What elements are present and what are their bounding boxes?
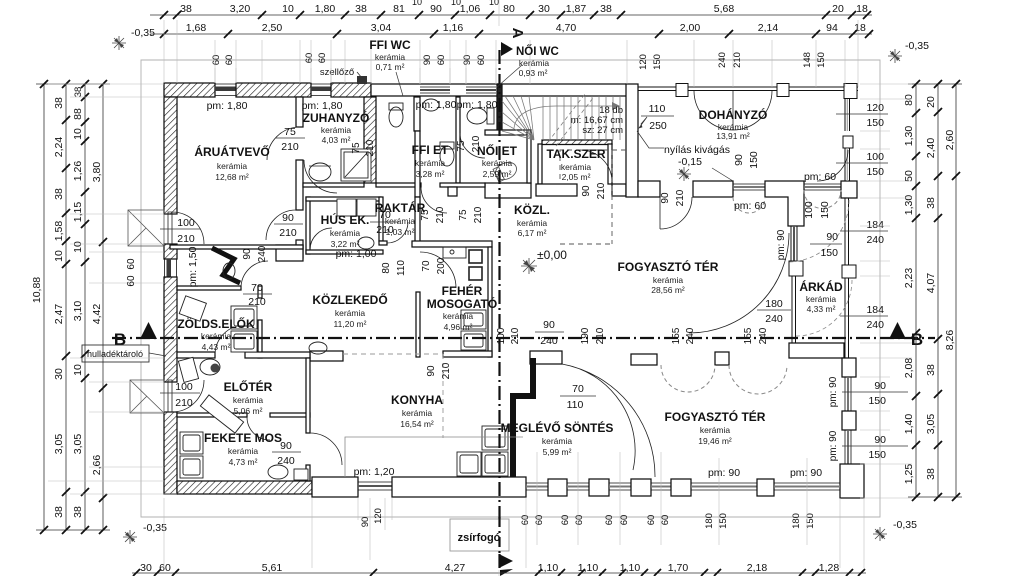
svg-text:180: 180 [765,298,783,310]
bottom window post 5 [757,479,774,496]
right wall corner block SE [840,464,864,498]
bottom window post 2 [589,479,609,496]
bottom window post 4 [671,479,691,496]
svg-text:10: 10 [489,0,499,7]
survey star DOHANYZO [677,167,691,181]
room label RAKTAR [375,200,426,237]
svg-text:pm: 90: pm: 90 [708,467,740,479]
svg-text:1,26: 1,26 [72,161,84,182]
svg-text:60: 60 [534,515,545,526]
survey star top left [112,36,126,50]
svg-text:KÖZLEKEDŐ: KÖZLEKEDŐ [312,292,387,307]
svg-text:-0,15: -0,15 [678,156,702,168]
svg-text:kerámia: kerámia [402,408,433,418]
svg-text:1,68: 1,68 [186,22,207,34]
stair break dashed lines [548,94,593,146]
svg-text:FOGYASZTÓ TÉR: FOGYASZTÓ TÉR [665,409,766,424]
rot dims 90-240 ARU door low [242,245,268,262]
FFI WC right wall [414,97,420,131]
right inner paired dims 90-150 mid [810,231,842,259]
HUS EK fridge 2 [357,199,376,216]
svg-text:kerámia: kerámia [415,158,446,168]
dashed boundary KONYHA-KOZLEKEDO [343,354,443,438]
svg-text:pm: 1,20: pm: 1,20 [354,466,395,478]
left dimension chain vertical lines [36,84,110,530]
ZOLDS.ELOK right wall [258,286,262,298]
ZOLDS table rotated [179,296,206,321]
door arc KOZL [660,197,692,229]
stair treads upper flight [543,96,620,140]
svg-text:nyílás kivágás: nyílás kivágás [664,144,730,156]
svg-text:38: 38 [600,3,612,15]
exterior top wall hatched segment 2 [236,83,311,97]
RAKTAR divider wall [379,197,383,241]
room label KONYHA [391,393,443,429]
svg-text:90: 90 [543,319,555,331]
ZOLDS.ELOK right wall lower [258,320,262,358]
survey star bottom right [873,527,887,541]
svg-text:TAK.SZER: TAK.SZER [546,147,605,161]
dashed door swing ARKAD east [789,200,849,262]
bottom window row glyph 5 [691,483,757,490]
right inner paired dims 100-150 [836,151,888,178]
room label TAK.SZER [546,147,605,182]
bottom wall window pm 1,20 [358,482,392,490]
axis opening dims rot on B line [496,327,769,344]
svg-text:60: 60 [126,258,137,270]
FEHER MOSOGATO hand sink 2 [469,267,482,280]
wall between FFI ET and NOI WC [456,97,460,183]
ZOLDS washer 2 [231,331,257,352]
stair walk line with arrow [514,106,612,128]
svg-text:3,05: 3,05 [925,414,937,435]
section marker A top [501,28,526,56]
top row1 numbers [180,0,868,15]
svg-text:pm: 90: pm: 90 [828,376,839,407]
FFI block south thin wall [376,183,421,187]
svg-text:250: 250 [649,120,667,132]
svg-text:±0,00: ±0,00 [537,248,567,262]
svg-text:81: 81 [393,3,405,15]
FEKETE MOS sink 2 [180,456,203,478]
svg-text:ZUHANYZÓ: ZUHANYZÓ [303,110,370,125]
NOI ET thin south wall west part [440,183,485,187]
svg-text:10,88: 10,88 [31,277,43,303]
bottom wall white segment west [312,477,358,497]
SONTES top wall block [530,351,562,364]
svg-text:FEKETE MOS: FEKETE MOS [204,431,282,445]
bottom window row glyph 4 [651,483,671,490]
section marker A bottom [499,554,513,576]
section marker B right [889,322,923,349]
svg-text:10: 10 [72,128,84,140]
svg-text:240: 240 [685,327,696,344]
svg-text:110: 110 [649,103,666,115]
FEHER MOSOGATO left wall [416,292,420,357]
door size 70-200 rot FEHER [421,257,447,274]
room label FOGYASZTO TER lower [665,409,766,446]
svg-text:0,71 m²: 0,71 m² [376,62,405,72]
double door arcs DOHANYZO north [694,91,772,130]
svg-text:-0,35: -0,35 [143,522,167,534]
door arc entry left wall lower [168,380,204,412]
corridor wall block west [276,245,303,261]
svg-text:3,20: 3,20 [230,3,251,15]
svg-text:1,06: 1,06 [460,3,481,15]
DOHANYZO right glazing window 100-150 [845,148,850,181]
section marker B left [114,322,157,349]
svg-text:kerámia: kerámia [700,425,731,435]
bottom window post 1 [548,479,567,496]
pier on B axis 1 [631,354,657,365]
svg-text:pm: 90: pm: 90 [790,467,822,479]
svg-text:60: 60 [317,53,328,64]
svg-text:8,26: 8,26 [944,330,956,351]
svg-text:80: 80 [903,94,915,106]
svg-text:1,25: 1,25 [903,464,915,485]
svg-text:28,56 m²: 28,56 m² [651,285,685,295]
stair winder treads [502,96,534,140]
svg-text:1,40: 1,40 [903,414,915,435]
room label ARKAD [799,279,843,314]
svg-text:2,59 m²: 2,59 m² [483,169,512,179]
right wall post upper [842,358,856,377]
left chain numbers rotated [31,87,103,518]
svg-text:150: 150 [805,513,816,529]
ELOTER bench rotated [200,395,243,433]
ARKAD east glazing lower [844,278,846,358]
room label ELOTER [224,379,273,416]
svg-text:150: 150 [866,166,884,178]
svg-text:100: 100 [496,327,507,344]
svg-text:240: 240 [717,52,728,68]
top dimension chain row1 line [150,14,872,16]
svg-text:90: 90 [360,517,371,528]
dashed opening arc lower band 1 [661,365,715,392]
window top wall 1 [215,84,236,96]
svg-text:240: 240 [758,327,769,344]
RAKTAR right wall [415,197,420,244]
FFI ET toilet [440,146,454,166]
door size 100-210 box upper [160,217,200,245]
svg-text:10: 10 [451,0,461,7]
svg-text:1,10: 1,10 [578,562,599,574]
pm labels top row [207,99,498,112]
room label FEKETE MOS [204,431,282,467]
svg-text:4,42: 4,42 [91,304,103,325]
door arc HUS EK [310,228,332,250]
svg-text:1,30: 1,30 [903,195,915,216]
svg-text:75: 75 [351,142,362,154]
bottom dimension chain line [132,572,866,574]
right wall post middle [842,411,856,430]
KONYHA west wall upper [306,358,310,433]
door arc ARKAD glass [689,233,789,333]
svg-text:0,93 m²: 0,93 m² [519,68,548,78]
svg-text:120: 120 [373,508,384,524]
top dimension chain row2 line [150,33,872,35]
svg-text:2,47: 2,47 [53,304,65,325]
door size 75-210 ARU [276,126,305,153]
above-plan rotated small dims [211,52,827,70]
centerline wall stub at A [497,84,502,131]
nyilas kivagas note [664,144,733,181]
vestibule sink [223,263,235,279]
right inner paired dims 184-240 lower [840,304,888,331]
ZOLDS.ELOK top wall [177,286,241,290]
svg-text:ZÖLDS.ELŐK: ZÖLDS.ELŐK [177,316,255,331]
exterior left wall upper hatched [164,97,177,214]
pier on B axis 2 [715,352,729,365]
svg-text:2,66: 2,66 [91,455,103,476]
svg-text:240: 240 [765,313,783,325]
waste bin glyph [178,357,198,382]
pm 90 labels bottom [708,467,822,479]
svg-text:4,96 m²: 4,96 m² [444,322,473,332]
svg-text:155: 155 [743,327,754,344]
svg-text:210: 210 [675,189,686,206]
svg-text:210: 210 [365,139,376,156]
svg-text:210: 210 [732,52,743,68]
door size 70-210 vestibule [243,282,272,308]
svg-text:FFI WC: FFI WC [369,38,411,52]
ZUHANYZO shower tray [341,149,371,181]
svg-text:90: 90 [874,380,886,392]
ELOTER - FEKETE MOS divider wall [177,413,247,417]
ZUHANYZO bottom thin wall [303,183,364,187]
door arc FEKETE MOS [247,417,270,440]
svg-text:2,05 m²: 2,05 m² [562,172,591,182]
corridor south wall block east [612,184,626,196]
svg-text:2,60: 2,60 [944,130,956,151]
partition ARUATVEVO right wall middle [296,160,303,210]
svg-text:20: 20 [832,3,844,15]
svg-text:kerámia: kerámia [330,228,361,238]
left wall piece between door1 and window [164,244,177,259]
door size 90-240 KONYHA [535,319,564,347]
site boundary light outline [141,60,880,517]
svg-text:120: 120 [638,54,649,70]
ARKAD east glazing upper [844,198,846,265]
svg-text:70: 70 [572,383,584,395]
svg-text:155: 155 [671,327,682,344]
svg-text:5,99 m²: 5,99 m² [543,447,572,457]
left wall lower hatched [164,412,177,494]
svg-text:210: 210 [596,182,607,199]
right inner paired dims 90-150 window1 [842,380,908,407]
svg-text:150: 150 [866,117,884,129]
right inner paired dims 90-150 window2 [842,434,908,461]
svg-text:13,91 m²: 13,91 m² [716,131,750,141]
svg-text:1,15: 1,15 [72,202,84,223]
door size 90-210 rot KONYHA NW [426,362,452,379]
svg-text:3,05: 3,05 [53,434,65,455]
svg-text:4,03 m²: 4,03 m² [322,135,351,145]
svg-text:240: 240 [257,245,268,262]
under-plan rotated small dims [360,508,816,529]
ZUHANYZO sink [309,163,331,181]
rot dims 90-150 at DOHANYZO center [733,151,760,169]
dashed corridor boundary KOZL [560,150,612,244]
HUS EK bottom wall [306,250,383,254]
svg-text:60: 60 [520,515,531,526]
svg-text:150: 150 [820,247,838,259]
svg-text:4,70: 4,70 [556,22,577,34]
svg-text:30: 30 [53,368,65,380]
DOHANYZO right glazing with window 120-150 [845,99,850,131]
svg-text:pm: 60: pm: 60 [734,200,766,212]
svg-text:50: 50 [903,170,915,182]
bottom window row glyph 2 [567,483,589,490]
svg-text:110: 110 [567,399,584,411]
TAK.SZER right wall [608,144,612,184]
svg-text:-0,35: -0,35 [131,27,155,39]
svg-text:210: 210 [279,227,297,239]
TAK.SZER left wall [538,144,542,184]
svg-text:80: 80 [381,262,392,274]
top row2 ticks [160,30,873,38]
room label ZUHANYZO [303,110,370,145]
hulladektarolo label box [82,345,166,362]
survey star top right [888,49,902,63]
svg-text:ÁRKÁD: ÁRKÁD [799,279,843,294]
ARKAD west post [789,261,803,276]
right chain numbers rotated [903,94,956,484]
svg-text:1,10: 1,10 [538,562,559,574]
svg-text:6,17 m²: 6,17 m² [518,228,547,238]
bottom chain ticks [133,569,865,576]
right inner paired dims 120-150 [836,102,888,129]
glazing post right wall [843,136,853,148]
svg-text:90: 90 [422,55,433,66]
stair - DOHANYZO divider wall [626,84,638,197]
svg-text:FFI ET: FFI ET [412,143,449,157]
DOHANYZO top glazing west run [638,86,858,88]
svg-text:-0,35: -0,35 [905,40,929,52]
room label ZOLDS.ELOK [177,316,255,352]
corridor wall L piece [638,181,660,197]
svg-text:100: 100 [175,381,193,393]
stair data block [571,105,623,136]
svg-text:DOHÁNYZÓ: DOHÁNYZÓ [699,107,768,122]
svg-text:kerámia: kerámia [321,125,352,135]
svg-text:1,80: 1,80 [315,3,336,15]
door arc TAK.SZER [580,150,612,182]
lobby sink FFI [423,99,439,111]
svg-text:180: 180 [791,513,802,529]
svg-text:kerámia: kerámia [201,331,232,341]
dashed opening arc upper band window [733,197,765,213]
door arc left wall upper (100-210) [168,212,204,244]
ARKAD west glazing lower [791,276,793,343]
svg-text:kerámia: kerámia [519,58,550,68]
svg-text:240: 240 [277,455,295,467]
KOZLEKEDO-KONYHA wall solid piece [310,351,343,361]
top row1 ticks [160,11,871,19]
right dimension chain vertical lines [908,84,962,497]
svg-text:2,23: 2,23 [903,268,915,289]
FEHER counter with drain [443,247,466,258]
svg-text:60: 60 [159,562,171,574]
room label KOZL [514,202,550,238]
door arc ARUATVEVO-ZUHANYZO [267,127,300,160]
svg-text:70: 70 [421,260,432,272]
svg-text:210: 210 [376,224,394,236]
svg-text:38: 38 [53,188,65,200]
door size 75-210 rot FFI [420,206,446,223]
KONYHA sink 3 [457,452,481,476]
svg-text:kerámia: kerámia [653,275,684,285]
rot dims 90-210 KOZL door [660,189,686,206]
FEHER MOSOGATO bottom wall [443,351,492,357]
svg-text:210: 210 [435,206,446,223]
bottom window row glyph 1 [526,483,548,490]
svg-text:75: 75 [420,209,431,221]
KONYHA sink 2 [482,452,508,476]
svg-text:kerámia: kerámia [806,294,837,304]
dashed opening arc lower band 2 [729,365,787,394]
FEHER sink 2 [461,331,486,350]
svg-text:210: 210 [281,141,299,153]
svg-text:90: 90 [282,212,294,224]
svg-text:10: 10 [72,364,84,376]
svg-text:60: 60 [224,55,235,66]
top band window slot 2 [466,87,496,93]
section line B horizontal [112,337,935,339]
FEKETE MOS sink 1 [180,432,203,454]
svg-text:200: 200 [436,257,447,274]
svg-text:pm: 1,80: pm: 1,80 [457,99,498,111]
door arc NOI ET [460,133,485,158]
svg-text:2,14: 2,14 [758,22,779,34]
svg-text:kerámia: kerámia [375,52,406,62]
bottom window row glyph 3 [609,483,631,490]
svg-text:150: 150 [868,395,886,407]
ARKAD east post [842,265,856,278]
svg-text:szellőző: szellőző [320,67,354,78]
bottom window post 3 [631,479,651,496]
svg-text:3,10: 3,10 [72,301,84,322]
svg-text:60: 60 [560,515,571,526]
wall stub between ET doors [448,187,457,196]
dashed door swing ARKAD lower east [796,280,852,336]
floor drain square [294,469,308,480]
stair opening 110-250 [637,103,674,148]
door size 100-210 box lower [160,381,200,409]
svg-text:10: 10 [72,241,84,253]
corner L wall at ARKAD top [765,181,804,226]
bottom wall white segment KONYHA [392,477,526,497]
left chain ticks [40,80,107,534]
door arc KONYHA west [310,433,342,465]
svg-text:60: 60 [604,515,615,526]
window top wall 2 [311,84,331,96]
svg-text:210: 210 [175,397,193,409]
svg-text:5,68: 5,68 [714,3,735,15]
room label MEGLEVO SONTES [501,420,614,457]
svg-text:70: 70 [379,209,391,221]
svg-text:ÁRUÁTVEVŐ: ÁRUÁTVEVŐ [194,144,269,159]
svg-text:30: 30 [140,562,152,574]
svg-text:pm: 60: pm: 60 [804,171,836,183]
svg-text:1,87: 1,87 [566,3,587,15]
svg-text:30: 30 [538,3,550,15]
right inner paired dims 184-240 upper [840,219,888,246]
svg-text:zsírfogó: zsírfogó [458,532,501,544]
KONYHA west wall lower [306,465,310,481]
svg-text:38: 38 [925,468,937,480]
svg-text:16,54 m²: 16,54 m² [400,419,434,429]
